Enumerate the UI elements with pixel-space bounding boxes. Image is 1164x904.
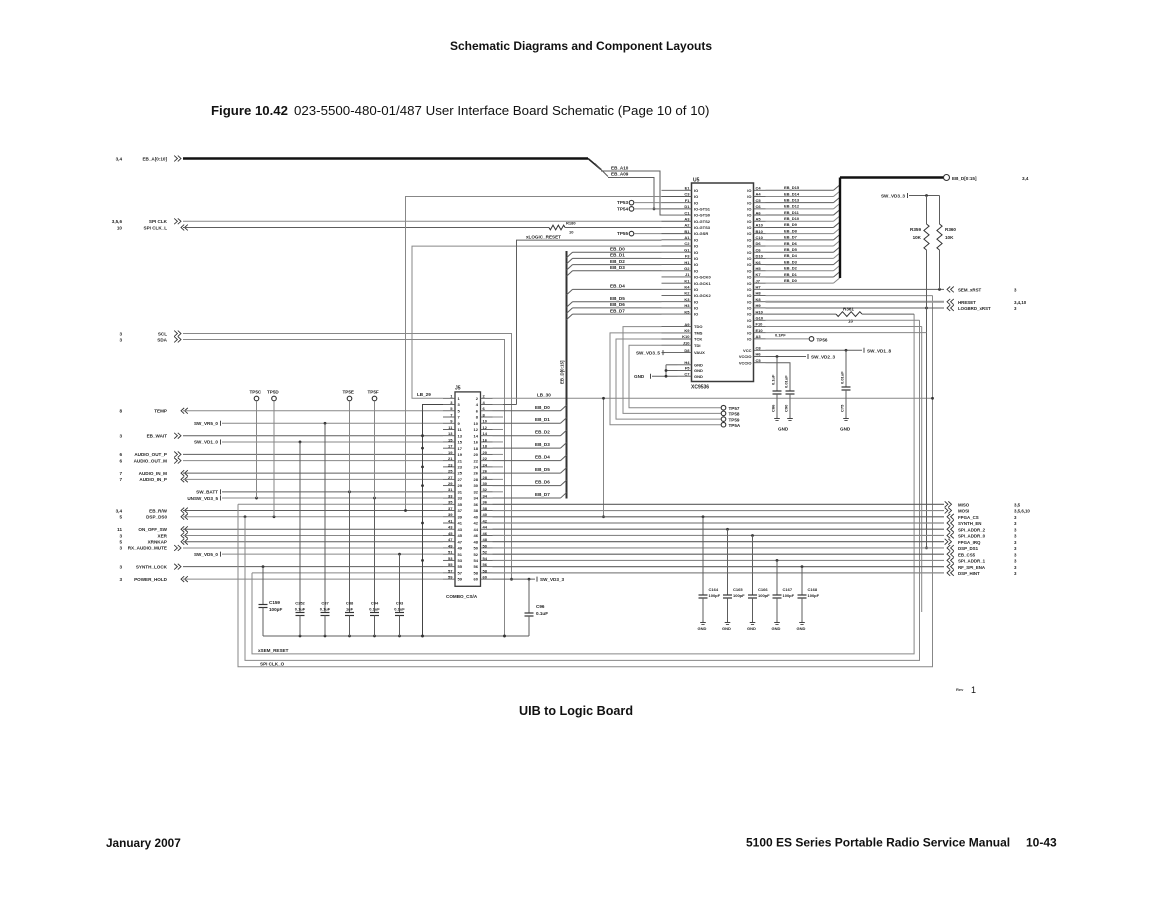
- svg-text:58: 58: [483, 568, 488, 573]
- svg-text:1uF: 1uF: [346, 607, 354, 612]
- svg-text:D6: D6: [756, 241, 762, 246]
- svg-text:100pF: 100pF: [709, 593, 721, 598]
- wire SPI_ADDR_0: [493, 534, 945, 536]
- svg-text:3: 3: [119, 337, 122, 342]
- svg-text:0.1uF: 0.1uF: [295, 607, 306, 612]
- svg-text:EB_D0: EB_D0: [535, 405, 550, 410]
- svg-text:MISO: MISO: [958, 502, 970, 507]
- svg-text:SPI CLK_L: SPI CLK_L: [144, 225, 168, 230]
- svg-text:24: 24: [483, 462, 488, 467]
- svg-text:6: 6: [119, 458, 122, 463]
- svg-text:IO: IO: [747, 281, 751, 286]
- svg-text:IO: IO: [747, 287, 751, 292]
- svg-text:EB_D3: EB_D3: [610, 265, 625, 270]
- svg-text:48: 48: [483, 537, 488, 542]
- svg-text:IO-GTS1: IO-GTS1: [694, 206, 711, 211]
- svg-text:TCK: TCK: [694, 337, 702, 342]
- svg-text:34: 34: [483, 493, 488, 498]
- net VCC SW_VD1_8: [766, 348, 892, 354]
- wire F10 row: [766, 325, 922, 327]
- svg-text:H6: H6: [756, 352, 762, 357]
- svg-text:SYNTH_LOCK: SYNTH_LOCK: [136, 564, 168, 569]
- svg-text:EB_D2: EB_D2: [784, 266, 798, 271]
- svg-text:SPI CLK: SPI CLK: [149, 219, 168, 224]
- svg-text:3: 3: [119, 331, 122, 336]
- wire DSP_DS1: [493, 547, 945, 549]
- svg-text:023-5500-480-01/487 User Inter: 023-5500-480-01/487 User Interface Board…: [294, 103, 709, 118]
- svg-text:IO: IO: [694, 200, 698, 205]
- svg-text:3,5,6,10: 3,5,6,10: [1014, 509, 1030, 514]
- svg-text:K3: K3: [684, 297, 690, 302]
- net label SW_VD5_0: [194, 552, 221, 557]
- net label EB_A09: [611, 172, 629, 177]
- svg-text:K6: K6: [756, 260, 762, 265]
- svg-text:35: 35: [448, 500, 453, 505]
- svg-text:Rev: Rev: [956, 687, 964, 692]
- svg-text:EB_D4: EB_D4: [784, 253, 798, 258]
- svg-text:3: 3: [119, 577, 122, 582]
- svg-text:27: 27: [448, 475, 453, 480]
- svg-text:AUDIO_IN_P: AUDIO_IN_P: [139, 477, 167, 482]
- wire VCCIO C5: [766, 363, 791, 391]
- svg-text:C6: C6: [756, 247, 762, 252]
- port RX_AUDIO_MUTE: [119, 545, 181, 551]
- svg-text:C167: C167: [783, 587, 793, 592]
- svg-text:IO-GTS2: IO-GTS2: [694, 219, 711, 224]
- port DSP_HINT: [947, 570, 1017, 576]
- svg-text:AUDIO_IN_M: AUDIO_IN_M: [139, 471, 168, 476]
- svg-text:0.1uF: 0.1uF: [320, 607, 331, 612]
- wire xLOGIC_RESET: [493, 234, 662, 404]
- svg-text:0.01uF: 0.01uF: [784, 375, 789, 388]
- svg-text:POWER_HOLD: POWER_HOLD: [134, 577, 168, 582]
- svg-text:0.1uF: 0.1uF: [394, 607, 405, 612]
- svg-text:IO: IO: [747, 237, 751, 242]
- svg-text:GND: GND: [747, 626, 756, 631]
- svg-text:H9: H9: [756, 303, 762, 308]
- svg-text:38: 38: [474, 508, 479, 513]
- port AUDIO_IN_M: [119, 470, 187, 476]
- svg-text:3,5: 3,5: [1014, 502, 1021, 507]
- svg-text:IO: IO: [694, 256, 698, 261]
- svg-text:16: 16: [474, 440, 479, 445]
- svg-text:SEM_xRST: SEM_xRST: [958, 288, 981, 293]
- svg-text:44: 44: [474, 527, 479, 532]
- svg-text:K10: K10: [682, 334, 690, 339]
- svg-text:Figure 10.42: Figure 10.42: [211, 103, 288, 118]
- svg-text:SW_VD1_8: SW_VD1_8: [867, 349, 891, 354]
- svg-text:32: 32: [483, 487, 488, 492]
- svg-text:16: 16: [483, 437, 488, 442]
- svg-text:TP5F: TP5F: [368, 390, 379, 395]
- svg-text:D10: D10: [756, 254, 764, 259]
- U5 GND pins: [678, 360, 704, 379]
- svg-text:3,4: 3,4: [116, 156, 123, 161]
- port SPI_ADDR_0: [947, 533, 1017, 539]
- svg-text:GND: GND: [797, 626, 806, 631]
- svg-text:7: 7: [119, 477, 122, 482]
- svg-text:TP5D: TP5D: [267, 390, 279, 395]
- svg-text:36: 36: [483, 500, 488, 505]
- wire EB_A10: [601, 171, 662, 215]
- svg-text:xLOGIC_RESET: xLOGIC_RESET: [526, 234, 561, 239]
- svg-text:44: 44: [483, 525, 488, 530]
- svg-text:DSP_DS1: DSP_DS1: [958, 546, 979, 551]
- port SPI_ADDR_1: [947, 558, 1017, 564]
- svg-text:C94: C94: [371, 601, 379, 606]
- svg-text:SW_VD3_3: SW_VD3_3: [881, 194, 905, 199]
- svg-text:EB_WAIT: EB_WAIT: [147, 434, 168, 439]
- svg-text:C2: C2: [684, 241, 690, 246]
- svg-text:34: 34: [474, 496, 479, 501]
- svg-text:C166: C166: [758, 587, 768, 592]
- svg-text:EB_D3: EB_D3: [535, 442, 550, 447]
- svg-text:54: 54: [474, 558, 479, 563]
- wire MISO: [493, 503, 945, 505]
- svg-text:Schematic Diagrams and Compone: Schematic Diagrams and Component Layouts: [450, 39, 712, 53]
- svg-text:12: 12: [483, 425, 488, 430]
- svg-text:IO: IO: [747, 256, 751, 261]
- svg-text:TP5A: TP5A: [729, 423, 741, 428]
- op-amp U5 CPLD XC9536: [691, 178, 754, 391]
- svg-text:LB_30: LB_30: [537, 393, 551, 398]
- svg-text:R360: R360: [945, 227, 956, 232]
- svg-text:H3: H3: [684, 303, 690, 308]
- wire DSP_DS0: [183, 515, 443, 518]
- resistor R180: [183, 221, 662, 235]
- svg-text:H10: H10: [756, 309, 764, 314]
- svg-text:VAUX: VAUX: [694, 350, 705, 355]
- test point TP5E: [343, 390, 355, 492]
- svg-text:GND: GND: [698, 626, 707, 631]
- svg-text:EB_D9: EB_D9: [784, 222, 798, 227]
- wire SCL: [183, 334, 513, 581]
- wire J5 row1 branch: [602, 397, 605, 518]
- svg-text:15: 15: [448, 437, 453, 442]
- bus EB_D[0:15] right: [840, 178, 944, 279]
- svg-text:10: 10: [483, 419, 488, 424]
- svg-text:COMBO_CS/A: COMBO_CS/A: [446, 594, 478, 599]
- wire AUDIO_OUT_M: [183, 460, 443, 462]
- svg-text:R359: R359: [910, 227, 921, 232]
- net VCCIO SW_VD2_3: [766, 354, 836, 360]
- svg-text:R361: R361: [843, 307, 854, 312]
- svg-text:J10: J10: [683, 340, 690, 345]
- svg-text:21: 21: [458, 458, 463, 463]
- wire EB_WAIT: [183, 435, 443, 437]
- svg-text:EB_D2: EB_D2: [610, 259, 625, 264]
- svg-text:40: 40: [483, 512, 488, 517]
- test point TP56: [766, 333, 828, 343]
- svg-text:45: 45: [458, 533, 463, 538]
- svg-text:28: 28: [474, 477, 479, 482]
- svg-text:EB_D14: EB_D14: [784, 191, 800, 196]
- svg-text:AUDIO_OUT_P: AUDIO_OUT_P: [134, 452, 167, 457]
- svg-text:10: 10: [569, 230, 574, 235]
- wire SW_VD5_0: [222, 553, 443, 556]
- svg-text:A9: A9: [684, 322, 690, 327]
- svg-text:G1: G1: [684, 247, 690, 252]
- svg-text:SYNTH_EN: SYNTH_EN: [958, 521, 981, 526]
- capacitor C166: [747, 534, 770, 631]
- net label SW_VD3_3: [493, 577, 565, 583]
- svg-text:24: 24: [474, 464, 479, 469]
- svg-text:E10: E10: [756, 328, 764, 333]
- wire H8 row: [766, 295, 933, 297]
- svg-text:C93: C93: [396, 601, 404, 606]
- svg-text:100pF: 100pF: [758, 593, 770, 598]
- bus EB_A[0:10]: [183, 159, 608, 177]
- port EB_CS5: [947, 551, 1017, 557]
- svg-text:0.1PF: 0.1PF: [775, 333, 786, 338]
- svg-text:36: 36: [474, 502, 479, 507]
- net label SW_VD3_5: [636, 350, 665, 356]
- svg-text:56: 56: [483, 562, 488, 567]
- svg-text:LOGBRD_xRST: LOGBRD_xRST: [958, 306, 991, 311]
- svg-text:EB_D6: EB_D6: [784, 241, 798, 246]
- capacitor C159: [259, 567, 283, 636]
- svg-text:D8: D8: [684, 348, 690, 353]
- svg-text:10: 10: [117, 225, 123, 230]
- svg-text:19: 19: [448, 450, 453, 455]
- svg-text:C5: C5: [756, 198, 762, 203]
- test point TP5A: [610, 333, 741, 428]
- svg-text:10K: 10K: [913, 235, 922, 240]
- resistor R360: [937, 196, 957, 290]
- svg-text:53: 53: [458, 558, 463, 563]
- capacitor C94: [369, 498, 380, 636]
- svg-text:IO: IO: [747, 318, 751, 323]
- svg-text:IO: IO: [747, 250, 751, 255]
- svg-text:18: 18: [483, 444, 488, 449]
- svg-text:XER: XER: [158, 533, 168, 538]
- svg-text:52: 52: [474, 552, 479, 557]
- port DSP_DS0: [119, 514, 187, 520]
- svg-text:3,4: 3,4: [1022, 176, 1029, 181]
- svg-text:IO: IO: [694, 237, 698, 242]
- svg-text:40: 40: [474, 514, 479, 519]
- wire SDA: [183, 340, 506, 638]
- svg-text:IO: IO: [747, 293, 751, 298]
- svg-text:57: 57: [458, 570, 463, 575]
- port LOGBRD_xRST: [947, 305, 1017, 311]
- svg-text:IO: IO: [747, 299, 751, 304]
- svg-text:EB_D[0:15]: EB_D[0:15]: [560, 360, 565, 384]
- svg-text:22: 22: [474, 458, 479, 463]
- svg-text:100pF: 100pF: [808, 593, 820, 598]
- svg-text:5: 5: [119, 540, 122, 545]
- svg-text:IO-GCK1: IO-GCK1: [694, 281, 711, 286]
- svg-text:47: 47: [448, 537, 453, 542]
- svg-text:42: 42: [474, 521, 479, 526]
- wire LOGBRD_xRST: [766, 307, 945, 310]
- svg-text:33: 33: [458, 496, 463, 501]
- svg-text:EB_D1: EB_D1: [784, 272, 798, 277]
- svg-text:TP59: TP59: [729, 417, 740, 422]
- svg-text:3,4: 3,4: [116, 508, 123, 513]
- wire ON_OFF_SW: [183, 528, 443, 530]
- svg-text:38: 38: [483, 506, 488, 511]
- port SPI_ADDR_2: [947, 526, 1017, 532]
- svg-text:RX_AUDIO_MUTE: RX_AUDIO_MUTE: [128, 546, 167, 551]
- svg-text:39: 39: [458, 514, 463, 519]
- svg-text:SPI_ADDR_2: SPI_ADDR_2: [958, 527, 986, 532]
- svg-text:U5: U5: [693, 178, 700, 184]
- svg-text:IO: IO: [694, 250, 698, 255]
- svg-text:J1: J1: [685, 272, 690, 277]
- svg-text:GND: GND: [694, 374, 703, 379]
- port SEM_xRST: [947, 287, 1017, 293]
- svg-text:EB_D5: EB_D5: [610, 296, 625, 301]
- svg-text:26: 26: [483, 469, 488, 474]
- svg-text:32: 32: [474, 489, 479, 494]
- svg-text:58: 58: [474, 570, 479, 575]
- svg-text:IO: IO: [694, 287, 698, 292]
- port MOSI: [945, 508, 1031, 514]
- port SYNTH_EN: [947, 520, 1017, 526]
- svg-text:49: 49: [458, 546, 463, 551]
- svg-text:TP54: TP54: [617, 206, 628, 211]
- bus EB_D[0:15] vertical: [560, 251, 567, 499]
- svg-text:IO: IO: [694, 244, 698, 249]
- svg-text:IO: IO: [694, 194, 698, 199]
- capacitor C87: [320, 423, 331, 636]
- svg-text:IO-GSR: IO-GSR: [694, 231, 708, 236]
- U5 left IO pins: [662, 186, 712, 317]
- wire UNSW_VD3_5: [222, 497, 443, 500]
- wire EB_R/W: [183, 510, 443, 512]
- wire SPI CLK_O loop: [245, 320, 920, 666]
- svg-text:H1: H1: [684, 260, 690, 265]
- svg-text:100pF: 100pF: [783, 593, 795, 598]
- footer left: [106, 836, 181, 850]
- svg-text:IO: IO: [747, 324, 751, 329]
- wire SW_VD1_0: [222, 441, 443, 444]
- svg-text:H4: H4: [684, 360, 690, 365]
- wire SPI_ADDR_1: [493, 559, 945, 561]
- svg-text:IO: IO: [747, 330, 751, 335]
- svg-text:41: 41: [448, 518, 453, 523]
- test point TP58: [623, 327, 740, 417]
- svg-text:3,5,6: 3,5,6: [112, 219, 123, 224]
- svg-text:42: 42: [483, 518, 488, 523]
- svg-text:C7: C7: [684, 371, 690, 376]
- svg-text:GND: GND: [840, 427, 851, 432]
- port HRESET: [947, 299, 1027, 305]
- net label SW_VD1_0: [194, 439, 221, 444]
- svg-text:H8: H8: [756, 291, 762, 296]
- svg-text:59: 59: [448, 575, 453, 580]
- svg-text:31: 31: [448, 487, 453, 492]
- svg-text:SPI CLK_O: SPI CLK_O: [260, 662, 285, 667]
- svg-text:31: 31: [458, 489, 463, 494]
- svg-text:EB_D11: EB_D11: [784, 210, 800, 215]
- wire SW_VR5_0: [222, 422, 443, 425]
- svg-text:E1: E1: [685, 186, 691, 191]
- svg-text:TDO: TDO: [694, 324, 702, 329]
- svg-text:xSEM_RESET: xSEM_RESET: [258, 648, 289, 653]
- svg-text:EB_R/W: EB_R/W: [149, 508, 168, 513]
- svg-text:C352: C352: [295, 601, 305, 606]
- svg-text:3: 3: [119, 434, 122, 439]
- svg-text:IO: IO: [747, 188, 751, 193]
- figure caption: [211, 103, 709, 118]
- svg-text:IO: IO: [694, 299, 698, 304]
- svg-text:IO: IO: [747, 206, 751, 211]
- wire E10 row: [766, 332, 927, 334]
- svg-text:13: 13: [458, 433, 463, 438]
- port SYNTH_LOCK: [119, 564, 181, 570]
- test point TP5D: [267, 390, 279, 517]
- wire POWER_HOLD: [183, 578, 443, 580]
- svg-text:A3: A3: [756, 334, 762, 339]
- wires EB_D0-7 CPLD taps: [567, 247, 662, 320]
- svg-text:28: 28: [483, 475, 488, 480]
- svg-text:5100 ES Series Portable Radio: 5100 ES Series Portable Radio Service Ma…: [746, 836, 1010, 850]
- svg-text:TP56: TP56: [817, 338, 828, 343]
- svg-text:22: 22: [483, 456, 488, 461]
- svg-text:IO-GTS3: IO-GTS3: [694, 225, 711, 230]
- svg-text:53: 53: [448, 556, 453, 561]
- svg-text:59: 59: [458, 577, 463, 582]
- svg-text:K9: K9: [684, 328, 690, 333]
- port POWER_HOLD: [119, 576, 187, 582]
- wire loop C2-LB_29: [412, 246, 662, 398]
- svg-text:IO-GTS0: IO-GTS0: [694, 213, 711, 218]
- svg-text:K5: K5: [684, 309, 690, 314]
- port SPI CLK_L: [117, 225, 188, 231]
- svg-text:K1: K1: [684, 278, 690, 283]
- svg-text:10: 10: [474, 421, 479, 426]
- wire EB_CS5: [493, 553, 945, 555]
- svg-text:IO: IO: [747, 225, 751, 230]
- svg-text:55: 55: [458, 564, 463, 569]
- svg-text:B1: B1: [684, 229, 690, 234]
- svg-text:SW_VD5_0: SW_VD5_0: [194, 552, 218, 557]
- svg-text:50: 50: [483, 543, 488, 548]
- port SDA: [119, 337, 181, 343]
- svg-text:IO: IO: [747, 312, 751, 317]
- svg-text:26: 26: [474, 471, 479, 476]
- svg-text:25: 25: [448, 469, 453, 474]
- svg-text:DSP_DS0: DSP_DS0: [146, 515, 167, 520]
- svg-text:DSP_HINT: DSP_HINT: [958, 571, 980, 576]
- svg-text:0.1uF: 0.1uF: [771, 374, 776, 385]
- wire SYNTH_LOCK: [183, 565, 443, 568]
- svg-text:MOSI: MOSI: [958, 509, 969, 514]
- svg-text:F10: F10: [756, 322, 764, 327]
- svg-text:VCC: VCC: [743, 348, 752, 353]
- svg-text:G2: G2: [684, 266, 690, 271]
- port RF_SPI_ENA: [947, 564, 1017, 570]
- port XRNKAP: [119, 539, 187, 545]
- svg-text:C75: C75: [840, 404, 845, 412]
- svg-text:IO-GCK2: IO-GCK2: [694, 293, 711, 298]
- svg-text:VCCIO: VCCIO: [739, 354, 752, 359]
- svg-text:C87: C87: [321, 601, 329, 606]
- svg-text:SPI_ADDR_1: SPI_ADDR_1: [958, 559, 986, 564]
- svg-text:IO: IO: [747, 268, 751, 273]
- svg-text:SCL: SCL: [158, 331, 167, 336]
- svg-text:47: 47: [458, 539, 463, 544]
- svg-text:SDA: SDA: [157, 337, 167, 342]
- svg-text:IO: IO: [747, 231, 751, 236]
- svg-text:SW_VR5_0: SW_VR5_0: [194, 421, 218, 426]
- svg-text:A6: A6: [756, 210, 762, 215]
- svg-text:ON_OFF_SW: ON_OFF_SW: [138, 527, 167, 532]
- U5 power pins: [739, 346, 766, 366]
- svg-text:0.01uF: 0.01uF: [840, 371, 845, 384]
